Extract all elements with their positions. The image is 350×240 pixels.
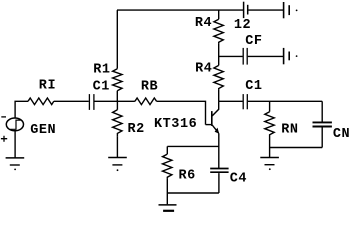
transistor Q1 collector lead — [212, 101, 219, 116]
battery B2 long plate — [283, 2, 285, 18]
ground R2 — [108, 158, 127, 172]
svg-text:R4: R4 — [195, 16, 212, 31]
svg-text:R4: R4 — [195, 62, 212, 77]
wire bottom R6 C4 — [167, 192, 219, 194]
svg-text:KT316: KT316 — [154, 117, 197, 132]
node dot CF row — [296, 55, 298, 57]
svg-text:R1: R1 — [93, 62, 110, 77]
wire emitter down — [218, 133, 220, 168]
capacitor C4 top plate — [210, 168, 228, 170]
plus sign — [1, 136, 7, 142]
wire CF row — [219, 55, 243, 57]
svg-text:CF: CF — [245, 34, 262, 49]
wire R4b to collector node — [218, 90, 220, 102]
wire R1 bottom — [116, 91, 118, 102]
capacitor CF right plate — [246, 48, 248, 65]
svg-text:CN: CN — [333, 127, 350, 142]
svg-text:RI: RI — [39, 79, 56, 94]
wire CN top lead — [321, 101, 323, 121]
wire collector out — [219, 100, 243, 102]
resistor R6 — [163, 154, 172, 179]
wire R6 bottom to ground — [166, 179, 168, 205]
wire C4 bottom lead — [218, 173, 220, 193]
wire RI to C1 — [54, 100, 89, 102]
emitter arrowhead — [215, 128, 220, 134]
wire node to R2 — [116, 101, 118, 110]
capacitor CF left plate — [242, 48, 244, 65]
wire output to CN — [248, 100, 322, 102]
capacitor C1 output left plate — [242, 94, 244, 109]
svg-text:GEN: GEN — [30, 123, 56, 138]
ground GEN — [6, 158, 25, 170]
wire R4a to CF node — [218, 44, 220, 66]
battery 12 long plate — [243, 2, 245, 18]
capacitor C4 bottom plate — [210, 171, 228, 173]
resistor R4 upper — [214, 19, 223, 44]
capacitor C1 input left plate — [88, 94, 90, 110]
transistor Q1 emitter with arrow — [212, 125, 218, 133]
resistor R2 — [113, 110, 122, 136]
resistor R1 — [113, 69, 122, 91]
vertical R4 column top — [218, 10, 220, 19]
node dot top right — [296, 10, 298, 12]
wire GEN corner — [15, 101, 28, 118]
resistor R4 lower — [214, 65, 223, 89]
svg-text:R6: R6 — [179, 169, 196, 184]
wire RN CN bottom — [270, 147, 323, 149]
svg-text:12: 12 — [234, 18, 251, 33]
wire CF row right segment — [248, 55, 283, 57]
wire top rail right segment — [248, 9, 283, 11]
wire R6 top lead — [166, 146, 168, 154]
resistor RN — [265, 112, 274, 137]
ground R6 — [159, 205, 177, 211]
battery B3 long plate — [283, 48, 285, 64]
wire C1 to node — [95, 100, 135, 102]
wire RN top lead — [269, 101, 271, 111]
resistor RB — [135, 98, 157, 105]
battery B3 short plate — [288, 52, 290, 61]
wire base lead — [206, 124, 212, 126]
capacitor C1 input right plate — [93, 94, 95, 110]
wire GEN to ground — [14, 131, 16, 158]
svg-text:RB: RB — [141, 79, 158, 94]
capacitor C1 output right plate — [246, 94, 248, 109]
generator GEN circle — [6, 118, 23, 131]
svg-text:C1: C1 — [245, 79, 262, 94]
svg-text:C4: C4 — [230, 172, 247, 187]
wire RN bottom — [269, 137, 271, 157]
capacitor CN bottom plate — [313, 126, 332, 128]
generator step waveform — [10, 120, 21, 129]
svg-text:R2: R2 — [128, 122, 145, 137]
resistor RI — [28, 98, 54, 105]
minus sign — [1, 116, 6, 118]
wire top rail — [117, 9, 243, 11]
wire R2 to ground — [116, 136, 118, 157]
wire CN bottom lead — [321, 128, 323, 148]
battery 12 short plate — [247, 5, 249, 15]
wire emitter branch to R6 — [167, 145, 219, 147]
ground RN — [260, 158, 279, 171]
svg-text:RN: RN — [281, 123, 298, 138]
wire RB to base riser — [157, 101, 206, 124]
battery B2 short plate — [288, 5, 290, 15]
capacitor CN top plate — [313, 121, 332, 123]
vertical riser R1 top — [116, 10, 118, 69]
svg-text:C1: C1 — [93, 79, 110, 94]
transistor Q1 base bar — [211, 111, 213, 126]
